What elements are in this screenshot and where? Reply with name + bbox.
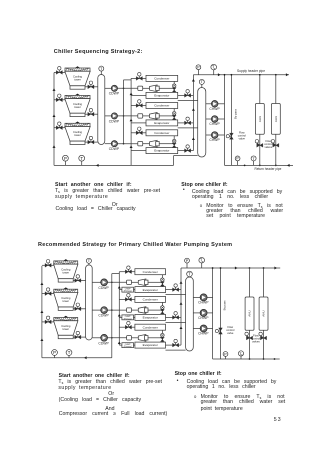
pump CDWP-3 (d2) <box>101 334 108 341</box>
wire: CDWP-1 suction (d2) <box>92 281 101 283</box>
flow arrow up on riser B <box>130 93 133 96</box>
sensor T on pump suction header <box>201 82 203 88</box>
flow arrow up on supply riser <box>192 137 195 140</box>
node: CDWP-2 line junction at riser A <box>123 115 125 117</box>
wire: CDWP-1 suction <box>105 87 112 89</box>
wire: tower 1 outlet (d2) <box>73 280 85 282</box>
expansion valve chiller 1 <box>172 84 176 88</box>
pump CHWP-2 <box>211 116 218 123</box>
wire: evaporator 3 outlet to supply riser <box>178 150 194 152</box>
flow arrow on return header <box>287 164 290 167</box>
wire: CHWP-1 discharge <box>218 103 225 105</box>
pump CDWP-1 <box>111 85 117 91</box>
flow arrow up on supply riser <box>192 79 195 82</box>
condenser box chiller 3 <box>146 130 178 136</box>
evaporator box chiller 2 <box>146 120 178 126</box>
svg-text:AHU: AHU <box>262 310 266 316</box>
svg-text:Evaporator: Evaporator <box>154 94 169 98</box>
svg-text:By pass: By pass <box>223 300 227 311</box>
wire: refrigerant drop condenser 3 to evaporator 3 <box>173 136 175 148</box>
svg-text:(Primary): (Primary) <box>124 290 132 293</box>
condenser box chiller 1 <box>146 75 178 81</box>
wire: CHWP-2 discharge (d2) <box>207 312 213 314</box>
wire: bottom condenser water return line <box>54 164 174 166</box>
wire: evaporator 1 outlet to supply riser <box>178 94 194 96</box>
text block: stop one chiller (lower right) <box>175 372 222 378</box>
pump CHWP-2 (d2) <box>200 309 207 316</box>
wire: evaporator 1 return connection (d2) <box>166 294 186 296</box>
flow arrow up on riser B <box>130 145 133 148</box>
valve tower 2 outlet (d2) <box>75 307 81 311</box>
node: CDWP-3 line junction at riser A <box>123 143 125 145</box>
flow arrow up on tower riser (d2) <box>40 282 43 285</box>
wire: refrigerant drop condenser 1 to evaporator 1 <box>173 81 175 92</box>
wire: evaporator 2 return connection to pump header <box>178 127 198 129</box>
wire: compressor 3 to expansion valve (d2) <box>148 337 162 339</box>
svg-text:tower: tower <box>63 271 70 275</box>
svg-text:tower: tower <box>74 78 81 82</box>
valve tower 1 inlet <box>56 71 62 75</box>
wire: refrigerant drop chiller 3 (d2) <box>161 330 163 342</box>
flow control valve AHU-2 (d2) <box>260 336 266 340</box>
sensor T on pump suction header (d2) <box>189 274 191 277</box>
wire: refrigerant drop chiller 1 (d2) <box>161 275 163 287</box>
wire: compressor 2 to expansion valve (d2) <box>148 309 162 311</box>
wire: return line rise to evaporator-3 drain line <box>173 156 175 166</box>
node: AHU-1 tap (d2) <box>249 267 251 269</box>
wire: CHWP-3 discharge (d2) <box>207 328 213 330</box>
condenser box chiller 3 (d2) <box>135 324 166 330</box>
svg-text:T: T <box>68 350 71 355</box>
svg-text:CHWP: CHWP <box>198 332 209 336</box>
svg-text:Condenser: Condenser <box>154 131 169 135</box>
valve condenser 2 inlet <box>136 104 142 108</box>
sensor Ts on supply header (d2) <box>201 260 203 268</box>
compressor chiller 2 <box>138 113 159 120</box>
node: AHU-1 on return header (d2) <box>249 358 251 360</box>
wire: condenser 1 inlet branch (d2) <box>119 271 135 273</box>
pump CDWP-1 (d2) <box>101 279 108 286</box>
flow arrow up on tower riser (d2) <box>40 310 43 313</box>
sensor T on condenser water header <box>100 69 102 75</box>
valve tower 1 outlet (d2) <box>75 279 81 283</box>
evaporator box chiller 2 (d2) <box>135 314 166 320</box>
node: CDWP-3 line junction at riser A (d2) <box>111 337 113 339</box>
wire: CHWP-3 discharge <box>218 134 225 136</box>
pump CDWP-2 <box>111 113 117 119</box>
sensor T on tower return line <box>81 158 83 165</box>
wire: riser A top connector <box>124 79 132 81</box>
valve evaporator 3 outlet <box>185 149 191 153</box>
flow arrow up on riser B (d2) <box>118 314 121 317</box>
wire: tower 2 inlet branch <box>54 99 66 101</box>
node: AHU-2 on return header (d2) <box>263 358 265 360</box>
heading: Recommended Strategy for Primary Chilled Water Pumping System <box>38 243 232 249</box>
node: CDWP-1 line junction at riser A <box>123 88 125 90</box>
wire: condenser supply riser A <box>123 80 125 144</box>
sensor T on condenser water header (d2) <box>88 261 90 265</box>
svg-text:Condenser: Condenser <box>143 298 158 302</box>
wire: tower 1 outlet to header <box>85 86 98 88</box>
cooling tower 3 <box>65 122 90 145</box>
evaporator box chiller 3 (d2) <box>135 342 166 348</box>
svg-text:CDWP: CDWP <box>98 341 109 345</box>
flow arrow up on tower riser <box>53 145 56 148</box>
wire: bottom condenser water return line (d2) <box>42 357 112 359</box>
wire: CDWP-2 suction (d2) <box>92 309 101 311</box>
wire: evaporator 3 return connection to pump header <box>174 155 198 157</box>
wire: condenser supply riser A (d2) <box>111 274 113 358</box>
wire: tower 1 inlet branch <box>54 71 66 73</box>
flow control valve on bypass (d2) <box>219 328 223 334</box>
valve tower 1 outlet <box>88 85 94 89</box>
flow arrow right on supply header <box>218 73 221 76</box>
flow arrow right on supply header (d2) <box>235 267 238 270</box>
wire: CHWP-3 suction (d2) <box>193 328 200 330</box>
wire: tower 3 inlet branch <box>54 127 66 129</box>
flow arrow right at supply header end (d2) <box>274 267 277 270</box>
svg-text:tower: tower <box>74 105 81 109</box>
flow arrow up on riser B <box>130 119 133 122</box>
wire: tower 2 outlet (d2) <box>73 308 85 310</box>
wire: chilled water supply riser <box>192 75 194 151</box>
wire: CDWP-3 suction <box>105 143 112 145</box>
valve evaporator 2 outlet <box>185 121 191 125</box>
svg-text:Supply header pipe: Supply header pipe <box>237 69 265 73</box>
valve tower 1 inlet (d2) <box>45 263 51 267</box>
node: bypass tap on supply header <box>231 74 233 76</box>
text block: stop one chiller (upper right) <box>181 183 227 189</box>
wire: CDWP-3 discharge (d2) <box>108 337 127 339</box>
flow arrow up on supply riser (d2) <box>180 281 183 284</box>
node: bypass tap (d2) <box>220 267 222 269</box>
wire: evaporator 1 outlet (d2) <box>166 289 182 291</box>
wire: CHWP-1 suction <box>206 103 212 105</box>
wire: bypass pipe <box>230 75 232 166</box>
flow control valve AHU-1 (d2) <box>246 336 252 340</box>
node: junction on return header <box>244 165 246 167</box>
AHU-1 box <box>255 104 264 135</box>
wire: tower 2 outlet to header <box>85 113 98 115</box>
wire: CHWP-3 suction <box>206 134 212 136</box>
svg-text:valves: valves <box>264 145 272 149</box>
wire: refrigerant drop chiller 2 (d2) <box>161 302 163 314</box>
valve evaporator 1 outlet <box>185 94 191 98</box>
node: CDWP-2 line junction at riser A (d2) <box>111 309 113 311</box>
svg-text:Condenser: Condenser <box>154 77 169 81</box>
wire: evaporator 1 inlet branch <box>131 94 146 96</box>
primary pump box chiller 1 (d2) <box>122 287 134 292</box>
valve tower 2 inlet <box>56 98 62 102</box>
pump CDWP-2 (d2) <box>101 307 108 314</box>
condenser box chiller 1 (d2) <box>135 269 166 275</box>
expansion valve chiller 2 <box>172 112 176 116</box>
svg-text:valve: valve <box>239 136 246 140</box>
flow arrow up on supply riser <box>192 108 195 111</box>
cooling tower 1 <box>65 66 90 89</box>
node: AHU-1 on return header <box>259 165 261 167</box>
heading: Chiller Sequencing Strategy-2 <box>54 50 143 56</box>
wire: chilled water supply riser (d2) <box>180 268 182 345</box>
pump CHWP-1 (d2) <box>200 294 207 301</box>
expansion valve chiller 3 (d2) <box>161 333 165 337</box>
sensor P on supply header (d2) <box>186 261 188 268</box>
wire: CHWP discharge header (d2) <box>212 268 214 359</box>
node: CDWP-1 line junction at riser A (d2) <box>111 282 113 284</box>
svg-text:T: T <box>80 156 83 161</box>
valve tower 3 inlet (d2) <box>45 320 51 324</box>
wire: AHU-1 return drop (d2) <box>249 330 251 359</box>
valve tower 3 outlet <box>88 140 94 144</box>
evaporator box chiller 1 (d2) <box>135 287 166 293</box>
wire: evaporator 3 inlet branch (d2) <box>119 344 135 346</box>
node: AHU-1 tap on supply header <box>259 74 261 76</box>
pipe header: condenser water suction capsule <box>98 75 105 145</box>
wire: tower 3 inlet branch (d2) <box>42 321 55 323</box>
compressor chiller 3 <box>138 140 159 147</box>
wire: condenser 1 inlet branch <box>131 77 146 79</box>
svg-text:CHWP: CHWP <box>198 316 209 320</box>
wire: condenser 3 inlet branch (d2) <box>119 326 135 328</box>
wire: evaporator 3 outlet (d2) <box>166 344 182 346</box>
svg-text:Evaporator: Evaporator <box>143 343 158 347</box>
valve condenser 3 inlet (d2) <box>125 325 131 329</box>
supply header pipe (d2) <box>181 267 280 269</box>
svg-text:CHWP: CHWP <box>209 107 220 111</box>
valve tower 2 inlet (d2) <box>45 292 51 296</box>
svg-text:CDWP: CDWP <box>109 147 120 151</box>
flow control valve AHU-2 <box>273 143 279 147</box>
compressor chiller 2 (d2) <box>127 307 148 314</box>
wire: chilled water return riser B (d2) <box>118 272 120 345</box>
wire: AHU-1 supply drop (d2) <box>249 268 251 297</box>
wire: evaporator 2 inlet branch <box>131 122 146 124</box>
expansion valve chiller 2 (d2) <box>161 306 165 310</box>
svg-text:CHWP: CHWP <box>209 138 220 142</box>
svg-text:CDWP: CDWP <box>109 119 120 123</box>
valve evaporator 1 outlet (d2) <box>173 288 179 292</box>
pump CHWP-3 <box>211 132 218 139</box>
wire: condenser 3 inlet branch <box>131 132 146 134</box>
wire: evaporator 2 outlet (d2) <box>166 316 182 318</box>
wire: tower 3 outlet to header <box>85 141 98 143</box>
expansion valve chiller 3 <box>172 139 176 143</box>
valve evaporator 3 outlet (d2) <box>173 343 179 347</box>
wire: CDWP-2 suction <box>105 115 112 117</box>
svg-text:P: P <box>64 156 67 161</box>
wire: bypass pipe (d2) <box>220 268 222 359</box>
wire: CHWP discharge header <box>224 75 226 166</box>
svg-text:Evaporator: Evaporator <box>143 288 158 292</box>
compressor chiller 3 (d2) <box>127 334 148 341</box>
wire: AHU-2 return drop <box>275 134 277 165</box>
wire: evaporator 3 inlet branch <box>131 150 146 152</box>
wire: AHU-2 return drop (d2) <box>263 330 265 359</box>
condenser box chiller 2 (d2) <box>135 296 166 302</box>
valve tower 3 outlet (d2) <box>75 335 81 339</box>
valve tower 2 outlet <box>88 112 94 116</box>
svg-text:CDWP: CDWP <box>109 92 120 96</box>
sensor P on supply header <box>197 67 199 75</box>
wire: refrigerant drop condenser 2 to evaporator 2 <box>173 109 175 120</box>
condenser box chiller 2 <box>146 103 178 109</box>
node: AHU-2 tap on supply header <box>275 74 277 76</box>
page number <box>274 418 282 424</box>
svg-text:Return header pipe: Return header pipe <box>255 167 282 171</box>
svg-text:Condenser: Condenser <box>143 270 158 274</box>
svg-text:valve: valve <box>227 331 234 335</box>
flow arrow up on tower riser (d2) <box>40 338 43 341</box>
compressor chiller 1 <box>138 85 159 92</box>
node: discharge header tap on supply header <box>224 74 226 76</box>
cooling tower 3 (d2) <box>54 316 78 339</box>
flow control valve on bypass <box>230 133 234 139</box>
svg-text:(Primary): (Primary) <box>124 317 132 320</box>
node: junction on return header (d2) <box>274 358 276 360</box>
compressor chiller 1 (d2) <box>127 279 148 286</box>
sensor P on tower return line (d2) <box>54 353 56 358</box>
wire: tower 3 outlet (d2) <box>73 336 85 338</box>
wire: evaporator 1 return connection to pump header <box>178 99 198 101</box>
valve condenser 1 inlet (d2) <box>125 270 131 274</box>
wire: AHU-1 supply drop <box>259 75 261 104</box>
pump CHWP-3 (d2) <box>200 325 207 332</box>
wire: evaporator 1 inlet branch (d2) <box>119 289 135 291</box>
wire: evaporator 2 return connection (d2) <box>166 321 186 323</box>
valve condenser 2 inlet (d2) <box>125 298 131 302</box>
cooling tower 2 (d2) <box>54 287 78 310</box>
return header pipe <box>225 164 294 166</box>
svg-text:AHU: AHU <box>258 116 262 122</box>
wire: compressor 2 to expansion valve <box>159 115 174 117</box>
valve condenser 1 inlet <box>136 77 142 81</box>
wire: CHWP-1 discharge (d2) <box>207 296 213 298</box>
svg-text:tower: tower <box>74 133 81 137</box>
flow arrow left on return line <box>96 164 99 167</box>
flow arrow left on return line (d2) <box>84 356 87 359</box>
valve evaporator 2 outlet (d2) <box>173 316 179 320</box>
evaporator box chiller 1 <box>146 92 178 98</box>
svg-text:tower: tower <box>63 327 70 331</box>
svg-text:AHU: AHU <box>274 116 278 122</box>
wire: riser A top connector (d2) <box>112 273 120 275</box>
wire: CDWP-3 discharge to chiller 3 <box>118 143 138 145</box>
sensor P on return header <box>237 158 239 165</box>
svg-text:CDWP: CDWP <box>98 314 109 318</box>
wire: tower 1 inlet branch (d2) <box>42 264 55 266</box>
wire: AHU-2 supply drop <box>275 75 277 104</box>
sensor T on tower return line (d2) <box>68 353 70 358</box>
flow arrow right at supply header end <box>286 73 289 76</box>
svg-text:Evaporator: Evaporator <box>154 121 169 125</box>
flow arrow up on riser B (d2) <box>118 286 121 289</box>
wire: chilled water return riser B <box>130 78 132 165</box>
svg-text:Condenser: Condenser <box>154 104 169 108</box>
svg-text:CDWP: CDWP <box>98 286 109 290</box>
wire: evaporator 3 return connection (d2) <box>166 349 186 351</box>
supply header pipe <box>193 74 289 76</box>
svg-text:Evaporator: Evaporator <box>154 149 169 153</box>
wire: CDWP-2 discharge to chiller 2 <box>118 115 138 117</box>
pump CHWP-1 <box>211 101 218 108</box>
flow arrow up on tower riser <box>53 88 56 91</box>
pipe header: chilled water pump suction capsule <box>198 88 206 158</box>
wire: CDWP-2 discharge (d2) <box>108 309 127 311</box>
wire: CDWP-1 discharge (d2) <box>108 281 127 283</box>
svg-text:valves: valves <box>252 340 260 344</box>
flow control valve AHU-1 <box>257 143 263 147</box>
wire: evaporator 2 outlet to supply riser <box>178 122 194 124</box>
pipe header: condenser water suction capsule (d2) <box>86 265 93 340</box>
text block: start another one chiller (lower left) <box>59 374 130 380</box>
svg-text:T: T <box>188 272 191 277</box>
wire: condenser 2 inlet branch (d2) <box>119 298 135 300</box>
svg-text:AHU: AHU <box>248 310 252 316</box>
text block: start another one chiller (upper left) <box>55 183 132 189</box>
wire: CHWP-2 discharge <box>218 118 225 120</box>
pipe header: chilled water pump suction capsule (d2) <box>186 277 194 351</box>
expansion valve chiller 1 (d2) <box>161 278 165 282</box>
wire: AHU-1 return drop <box>259 134 261 165</box>
svg-text:Evaporator: Evaporator <box>143 316 158 320</box>
valve tower 3 inlet <box>56 126 62 130</box>
sensor Ts on supply header <box>213 67 215 75</box>
wire: compressor 1 to expansion valve (d2) <box>148 281 162 283</box>
svg-text:CHWP: CHWP <box>209 122 220 126</box>
node: AHU-2 on return header <box>275 165 277 167</box>
AHU-2 box (d2) <box>259 297 268 330</box>
valve condenser 3 inlet <box>136 131 142 135</box>
wire: CHWP-2 suction <box>206 118 212 120</box>
svg-text:(Primary): (Primary) <box>124 345 132 348</box>
svg-text:CHWP: CHWP <box>198 301 209 305</box>
cooling tower 1 (d2) <box>54 259 78 282</box>
wire: condenser water return riser to cooling towers (d2) <box>41 266 43 358</box>
flow arrow up on supply riser (d2) <box>180 326 183 329</box>
wire: CHWP-1 suction (d2) <box>193 296 200 298</box>
wire: compressor 3 to expansion valve <box>159 143 174 145</box>
wire: CDWP-1 discharge to chiller 1 <box>118 87 138 89</box>
wire: tower 2 inlet branch (d2) <box>42 293 55 295</box>
sensor P on tower return line <box>64 158 66 165</box>
node: discharge header tap on supply header (d2) <box>212 267 214 269</box>
return header pipe (d2) <box>213 358 280 360</box>
svg-text:Condenser: Condenser <box>143 325 158 329</box>
wire: CDWP-3 suction (d2) <box>92 337 101 339</box>
wire: compressor 1 to expansion valve <box>159 87 174 89</box>
flow arrow up on tower riser <box>53 114 56 117</box>
sensor T on return header <box>253 158 255 165</box>
sensor P on return header (d2) <box>225 354 227 359</box>
primary pump box chiller 2 (d2) <box>122 315 134 320</box>
pump CDWP-3 <box>111 141 117 147</box>
cooling tower 2 <box>65 94 90 117</box>
flow arrow up on supply riser (d2) <box>180 302 183 305</box>
AHU-1 box (d2) <box>245 297 254 330</box>
flow arrow up on riser B (d2) <box>118 341 121 344</box>
svg-text:By pass: By pass <box>233 108 237 119</box>
primary pump box chiller 3 (d2) <box>122 343 134 348</box>
wire: evaporator 2 inlet branch (d2) <box>119 316 135 318</box>
wire: AHU-2 supply drop (d2) <box>263 268 265 297</box>
wire: condenser water return riser to cooling towers <box>53 73 55 166</box>
wire: condenser 2 inlet branch <box>131 105 146 107</box>
svg-text:P: P <box>53 350 56 355</box>
svg-text:tower: tower <box>63 299 70 303</box>
node: AHU-2 tap (d2) <box>263 267 265 269</box>
wire: CHWP-2 suction (d2) <box>193 312 200 314</box>
AHU-2 box <box>271 104 280 135</box>
